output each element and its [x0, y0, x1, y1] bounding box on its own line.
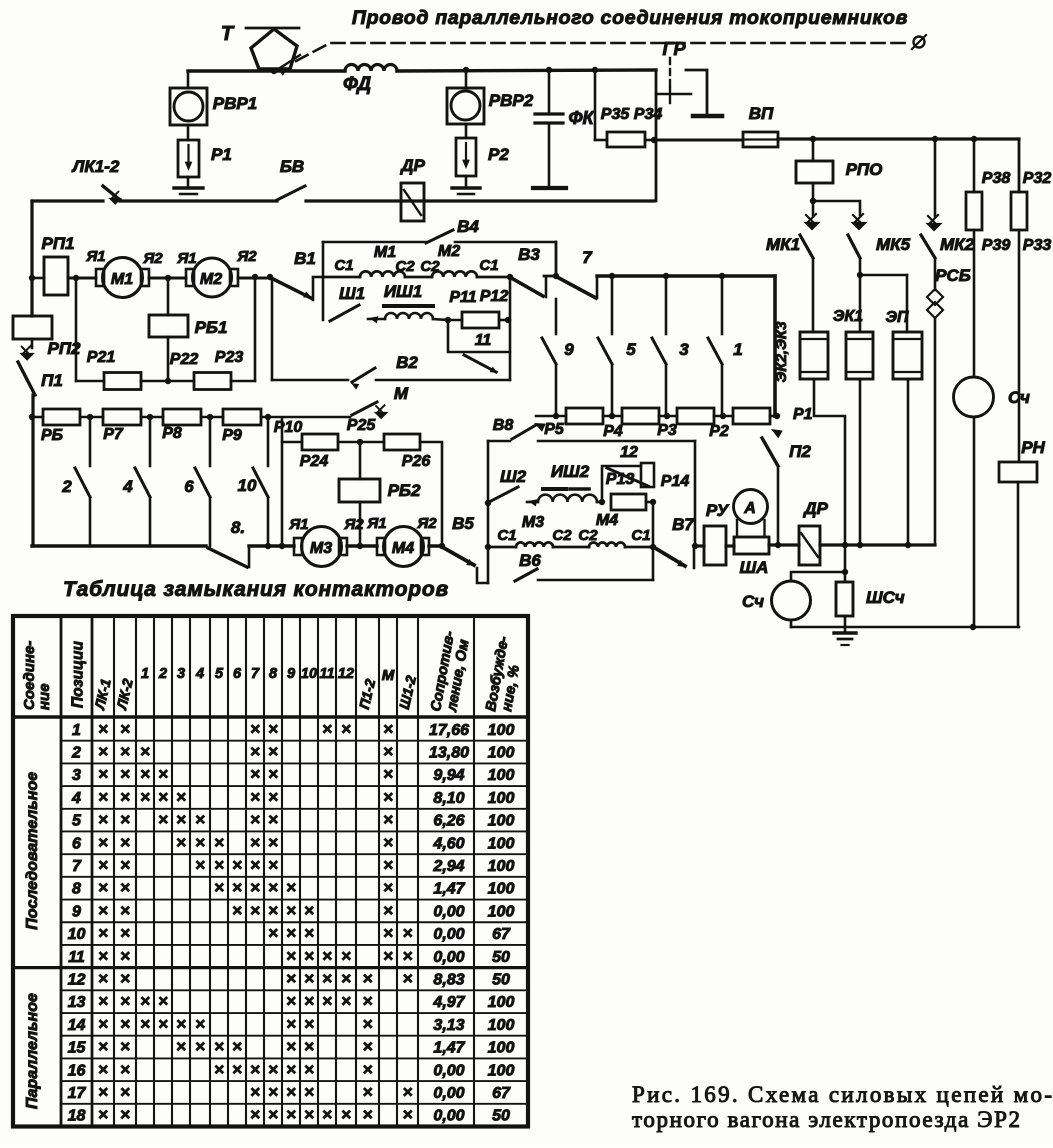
svg-text:×: × [363, 969, 373, 988]
svg-text:×: × [98, 1060, 108, 1079]
svg-text:Р3: Р3 [657, 422, 677, 439]
svg-text:П2: П2 [789, 442, 811, 461]
svg-text:9: 9 [287, 666, 295, 682]
svg-text:ние: ние [36, 683, 53, 710]
svg-text:×: × [250, 1082, 260, 1101]
svg-text:×: × [403, 924, 413, 943]
svg-text:×: × [286, 924, 296, 943]
svg-text:×: × [120, 946, 130, 965]
svg-text:×: × [322, 946, 332, 965]
svg-text:Ш1: Ш1 [339, 284, 365, 303]
svg-text:×: × [250, 1060, 260, 1079]
svg-text:ША: ША [740, 558, 769, 577]
svg-text:Р1: Р1 [793, 406, 813, 423]
svg-text:4,97: 4,97 [432, 994, 465, 1011]
svg-text:7: 7 [72, 858, 82, 875]
svg-text:ИШ2: ИШ2 [551, 462, 590, 481]
svg-text:×: × [98, 1105, 108, 1124]
svg-text:×: × [214, 1060, 224, 1079]
svg-text:16: 16 [68, 1062, 86, 1079]
svg-text:6,26: 6,26 [433, 813, 464, 830]
svg-text:3,13: 3,13 [433, 1017, 464, 1034]
svg-text:100: 100 [488, 745, 515, 762]
svg-text:×: × [268, 719, 278, 738]
svg-text:×: × [383, 901, 393, 920]
svg-text:17: 17 [68, 1085, 87, 1102]
svg-text:3: 3 [679, 340, 689, 359]
svg-text:×: × [120, 1014, 130, 1033]
svg-text:×: × [140, 765, 150, 784]
svg-text:0,00: 0,00 [433, 1108, 464, 1125]
svg-text:М1: М1 [374, 244, 396, 261]
svg-text:12: 12 [620, 444, 638, 461]
svg-text:Р24: Р24 [300, 453, 329, 470]
svg-text:БВ: БВ [280, 157, 304, 176]
svg-text:Последовательное: Последовательное [24, 772, 41, 930]
svg-text:100: 100 [488, 994, 515, 1011]
svg-text:100: 100 [488, 835, 515, 852]
svg-text:8: 8 [269, 666, 278, 682]
svg-text:М4: М4 [596, 512, 618, 529]
svg-text:×: × [158, 765, 168, 784]
svg-text:12: 12 [338, 666, 354, 682]
svg-text:×: × [214, 833, 224, 852]
svg-text:2: 2 [61, 477, 72, 496]
svg-text:1: 1 [733, 340, 742, 359]
svg-text:4,60: 4,60 [432, 835, 464, 852]
svg-text:×: × [195, 1037, 205, 1056]
svg-text:×: × [363, 1037, 373, 1056]
svg-text:×: × [383, 765, 393, 784]
svg-text:×: × [383, 924, 393, 943]
svg-text:×: × [176, 810, 186, 829]
svg-text:×: × [98, 765, 108, 784]
svg-text:×: × [120, 878, 130, 897]
svg-text:17,66: 17,66 [429, 722, 469, 739]
svg-text:Р8: Р8 [162, 425, 182, 442]
svg-text:×: × [98, 924, 108, 943]
svg-text:×: × [322, 719, 332, 738]
svg-text:С1: С1 [479, 257, 498, 274]
svg-text:РПО: РПО [846, 160, 883, 179]
svg-text:×: × [98, 719, 108, 738]
svg-text:8,10: 8,10 [433, 790, 464, 807]
svg-text:×: × [98, 901, 108, 920]
svg-text:4: 4 [122, 477, 133, 496]
svg-text:×: × [322, 992, 332, 1011]
svg-text:15: 15 [68, 1040, 87, 1057]
svg-text:Р21: Р21 [87, 349, 116, 366]
svg-text:Я2: Я2 [343, 516, 364, 533]
svg-text:100: 100 [488, 881, 515, 898]
svg-text:М3: М3 [522, 514, 544, 531]
svg-text:×: × [363, 1082, 373, 1101]
svg-text:×: × [158, 787, 168, 806]
svg-text:×: × [120, 969, 130, 988]
svg-text:ЭК1: ЭК1 [833, 308, 863, 325]
svg-text:×: × [176, 833, 186, 852]
svg-text:×: × [250, 742, 260, 761]
svg-text:М1: М1 [111, 271, 133, 288]
svg-text:×: × [176, 1014, 186, 1033]
svg-text:В3: В3 [518, 245, 540, 264]
svg-text:×: × [232, 878, 242, 897]
svg-text:Р32: Р32 [1023, 170, 1052, 187]
svg-text:12: 12 [68, 971, 86, 988]
svg-text:×: × [250, 833, 260, 852]
svg-text:М: М [382, 667, 395, 684]
svg-text:ФК: ФК [568, 108, 595, 128]
svg-text:С1: С1 [334, 257, 353, 274]
svg-text:×: × [98, 833, 108, 852]
svg-text:×: × [304, 901, 314, 920]
svg-text:Я1: Я1 [288, 516, 308, 533]
svg-text:В6: В6 [519, 551, 541, 570]
svg-text:×: × [98, 1037, 108, 1056]
svg-text:×: × [403, 969, 413, 988]
svg-text:×: × [268, 1105, 278, 1124]
svg-text:×: × [268, 924, 278, 943]
svg-text:9: 9 [564, 340, 574, 359]
svg-text:×: × [268, 1082, 278, 1101]
svg-text:ИШ1: ИШ1 [384, 282, 422, 301]
svg-text:×: × [250, 901, 260, 920]
svg-text:Р13: Р13 [606, 471, 635, 488]
svg-text:А: А [743, 500, 756, 517]
svg-text:РВР1: РВР1 [213, 94, 257, 113]
svg-text:0,00: 0,00 [433, 1062, 464, 1079]
svg-text:×: × [120, 742, 130, 761]
svg-text:×: × [268, 856, 278, 875]
svg-text:Р11: Р11 [449, 289, 476, 306]
svg-text:М2: М2 [438, 243, 460, 260]
svg-text:6: 6 [72, 835, 81, 852]
svg-text:×: × [403, 946, 413, 965]
svg-text:4: 4 [71, 790, 81, 807]
svg-text:5: 5 [215, 666, 224, 682]
svg-text:×: × [383, 719, 393, 738]
svg-text:1: 1 [141, 666, 149, 682]
svg-text:МК1: МК1 [766, 235, 800, 254]
svg-text:5: 5 [72, 813, 82, 830]
svg-text:×: × [341, 969, 351, 988]
svg-text:×: × [403, 1105, 413, 1124]
svg-text:×: × [250, 719, 260, 738]
svg-text:РП2: РП2 [47, 339, 81, 358]
svg-text:0,00: 0,00 [433, 926, 464, 943]
svg-text:×: × [140, 787, 150, 806]
svg-text:ЭК2,ЭК3: ЭК2,ЭК3 [773, 321, 790, 383]
svg-text:9: 9 [72, 903, 81, 920]
svg-text:100: 100 [488, 722, 515, 739]
svg-text:6: 6 [233, 666, 242, 682]
svg-text:×: × [98, 810, 108, 829]
svg-text:×: × [286, 992, 296, 1011]
svg-text:Провод параллельного соедине: Провод параллельного соединения токоприе… [352, 7, 908, 29]
svg-text:×: × [232, 1060, 242, 1079]
svg-text:Р1: Р1 [211, 145, 232, 164]
svg-text:×: × [120, 765, 130, 784]
svg-text:Р38: Р38 [982, 170, 1011, 187]
svg-text:Позиции: Позиции [70, 641, 87, 708]
svg-text:×: × [250, 1105, 260, 1124]
svg-text:Р39: Р39 [982, 237, 1011, 254]
svg-text:×: × [98, 1082, 108, 1101]
svg-text:С1: С1 [631, 527, 650, 544]
svg-text:×: × [120, 1082, 130, 1101]
svg-text:10: 10 [301, 666, 317, 682]
svg-text:×: × [341, 1105, 351, 1124]
svg-text:РБ1: РБ1 [195, 318, 228, 337]
svg-text:ШСч: ШСч [866, 588, 905, 607]
svg-text:×: × [403, 1082, 413, 1101]
svg-text:×: × [176, 1037, 186, 1056]
svg-text:×: × [268, 742, 278, 761]
svg-text:2: 2 [71, 745, 81, 762]
svg-text:×: × [98, 969, 108, 988]
svg-text:×: × [250, 787, 260, 806]
svg-text:1,47: 1,47 [433, 881, 465, 898]
svg-text:×: × [268, 765, 278, 784]
svg-text:×: × [120, 992, 130, 1011]
svg-text:×: × [250, 810, 260, 829]
svg-text:×: × [286, 878, 296, 897]
svg-text:100: 100 [488, 1062, 515, 1079]
svg-text:100: 100 [488, 903, 515, 920]
svg-text:×: × [120, 901, 130, 920]
svg-text:×: × [98, 1014, 108, 1033]
svg-text:×: × [363, 1060, 373, 1079]
svg-text:РН: РН [1021, 438, 1045, 457]
svg-text:×: × [268, 1060, 278, 1079]
svg-text:×: × [304, 924, 314, 943]
svg-text:×: × [383, 810, 393, 829]
svg-text:×: × [383, 878, 393, 897]
svg-text:100: 100 [488, 858, 515, 875]
svg-text:С1: С1 [497, 527, 516, 544]
svg-text:67: 67 [492, 1085, 511, 1102]
svg-text:×: × [195, 833, 205, 852]
svg-text:0,00: 0,00 [433, 903, 464, 920]
svg-text:×: × [98, 878, 108, 897]
svg-text:0,00: 0,00 [433, 1085, 464, 1102]
svg-text:×: × [214, 856, 224, 875]
svg-text:9,94: 9,94 [433, 767, 464, 784]
svg-text:РП1: РП1 [41, 234, 74, 253]
svg-text:×: × [195, 810, 205, 829]
svg-text:13: 13 [68, 994, 86, 1011]
svg-text:×: × [98, 787, 108, 806]
svg-text:Р10: Р10 [274, 419, 303, 436]
svg-text:100: 100 [488, 790, 515, 807]
svg-text:5: 5 [626, 340, 636, 359]
svg-text:Р25: Р25 [347, 417, 377, 434]
svg-text:РУ: РУ [706, 501, 730, 520]
svg-text:×: × [304, 1060, 314, 1079]
svg-text:×: × [214, 1037, 224, 1056]
svg-text:×: × [120, 1037, 130, 1056]
svg-text:×: × [363, 1014, 373, 1033]
svg-text:×: × [140, 1014, 150, 1033]
svg-text:×: × [120, 1105, 130, 1124]
svg-text:100: 100 [488, 767, 515, 784]
svg-text:×: × [322, 1105, 332, 1124]
svg-text:×: × [268, 878, 278, 897]
svg-text:×: × [304, 1037, 314, 1056]
svg-text:100: 100 [488, 813, 515, 830]
svg-text:Т: Т [221, 23, 235, 45]
svg-text:100: 100 [488, 1040, 515, 1057]
svg-text:×: × [286, 1014, 296, 1033]
svg-text:×: × [250, 856, 260, 875]
svg-text:13,80: 13,80 [429, 745, 469, 762]
svg-text:Р12: Р12 [480, 288, 509, 305]
svg-text:14: 14 [68, 1017, 86, 1034]
svg-text:МК5: МК5 [876, 235, 911, 254]
svg-text:×: × [341, 946, 351, 965]
svg-text:×: × [341, 719, 351, 738]
svg-text:×: × [383, 742, 393, 761]
svg-text:67: 67 [492, 926, 511, 943]
svg-text:М4: М4 [392, 540, 414, 557]
svg-text:×: × [286, 1060, 296, 1079]
svg-text:торного вагона электропоезда Э: торного вагона электропоезда ЭР2 [632, 1107, 1020, 1132]
svg-text:2: 2 [158, 666, 167, 682]
svg-text:Я1: Я1 [85, 248, 105, 265]
svg-text:50: 50 [492, 949, 510, 966]
svg-text:В1: В1 [294, 249, 316, 268]
svg-text:6: 6 [184, 477, 194, 496]
svg-text:×: × [250, 765, 260, 784]
svg-text:7: 7 [251, 666, 260, 682]
svg-text:×: × [304, 992, 314, 1011]
svg-text:РБ: РБ [41, 427, 63, 444]
svg-text:×: × [158, 1014, 168, 1033]
svg-text:×: × [120, 924, 130, 943]
svg-text:В8: В8 [493, 417, 514, 434]
svg-text:В7: В7 [672, 515, 695, 534]
svg-text:×: × [268, 901, 278, 920]
svg-text:100: 100 [488, 1017, 515, 1034]
svg-text:ЛК1-2: ЛК1-2 [71, 157, 120, 176]
svg-text:×: × [383, 856, 393, 875]
svg-text:×: × [363, 992, 373, 1011]
svg-text:×: × [383, 787, 393, 806]
svg-text:×: × [120, 1060, 130, 1079]
svg-text:Таблица замыкания контакторо: Таблица замыкания контакторов [63, 578, 449, 601]
svg-text:Р34: Р34 [634, 106, 663, 123]
svg-text:×: × [383, 946, 393, 965]
svg-text:Я2: Я2 [236, 248, 257, 265]
svg-text:×: × [268, 833, 278, 852]
svg-text:РВР2: РВР2 [489, 91, 534, 110]
svg-text:Р33: Р33 [1023, 237, 1052, 254]
svg-text:×: × [158, 992, 168, 1011]
svg-text:3: 3 [72, 767, 81, 784]
svg-text:×: × [158, 810, 168, 829]
svg-text:М2: М2 [200, 271, 222, 288]
svg-text:В4: В4 [457, 217, 479, 236]
svg-text:10: 10 [68, 926, 86, 943]
svg-text:×: × [304, 946, 314, 965]
svg-text:ДР: ДР [399, 156, 425, 175]
svg-text:×: × [176, 787, 186, 806]
svg-text:Ш2: Ш2 [500, 467, 527, 486]
svg-text:Р26: Р26 [402, 453, 431, 470]
svg-text:7: 7 [582, 248, 593, 267]
svg-text:Я1: Я1 [176, 250, 196, 267]
svg-text:×: × [120, 833, 130, 852]
svg-text:МК2: МК2 [940, 235, 975, 254]
svg-text:×: × [304, 969, 314, 988]
svg-text:×: × [363, 1105, 373, 1124]
svg-text:18: 18 [68, 1108, 86, 1125]
svg-text:×: × [250, 878, 260, 897]
svg-text:×: × [286, 901, 296, 920]
svg-text:ДР: ДР [802, 499, 828, 518]
svg-text:×: × [98, 856, 108, 875]
svg-text:Р5: Р5 [544, 421, 565, 438]
svg-text:ЭП: ЭП [885, 309, 909, 326]
svg-text:В2: В2 [396, 353, 418, 372]
svg-text:×: × [232, 901, 242, 920]
svg-text:×: × [286, 1105, 296, 1124]
svg-text:×: × [98, 992, 108, 1011]
svg-text:×: × [341, 992, 351, 1011]
svg-text:×: × [214, 878, 224, 897]
svg-text:×: × [120, 810, 130, 829]
svg-text:×: × [232, 856, 242, 875]
svg-text:8,83: 8,83 [433, 971, 464, 988]
svg-text:Р2: Р2 [709, 423, 729, 440]
svg-text:×: × [322, 969, 332, 988]
svg-text:Р4: Р4 [603, 423, 623, 440]
svg-text:М: М [394, 384, 409, 403]
svg-text:ГР: ГР [662, 39, 686, 59]
svg-text:×: × [140, 992, 150, 1011]
svg-text:1: 1 [72, 722, 81, 739]
svg-text:×: × [383, 833, 393, 852]
svg-text:×: × [195, 1014, 205, 1033]
svg-text:×: × [120, 787, 130, 806]
svg-text:Р35: Р35 [601, 106, 631, 123]
svg-text:×: × [268, 787, 278, 806]
svg-text:11: 11 [475, 332, 492, 349]
svg-text:×: × [98, 946, 108, 965]
svg-text:ВП: ВП [749, 104, 774, 123]
svg-text:×: × [232, 1037, 242, 1056]
svg-text:Р22: Р22 [170, 351, 199, 368]
svg-text:Р23: Р23 [215, 349, 244, 366]
svg-text:×: × [286, 969, 296, 988]
svg-text:×: × [304, 1014, 314, 1033]
svg-text:Я1: Я1 [366, 515, 386, 532]
svg-text:Я2: Я2 [142, 250, 163, 267]
svg-text:1,47: 1,47 [433, 1040, 465, 1057]
svg-text:В5: В5 [452, 514, 474, 533]
svg-text:×: × [195, 856, 205, 875]
svg-text:8.: 8. [231, 518, 245, 537]
svg-text:×: × [120, 856, 130, 875]
svg-text:11: 11 [319, 666, 334, 682]
svg-text:Я2: Я2 [416, 515, 437, 532]
svg-text:Р14: Р14 [661, 473, 690, 490]
svg-text:Р7: Р7 [103, 426, 124, 443]
svg-text:Р2: Р2 [488, 145, 509, 164]
svg-text:С2: С2 [552, 527, 572, 544]
svg-text:×: × [120, 719, 130, 738]
svg-text:×: × [286, 1082, 296, 1101]
